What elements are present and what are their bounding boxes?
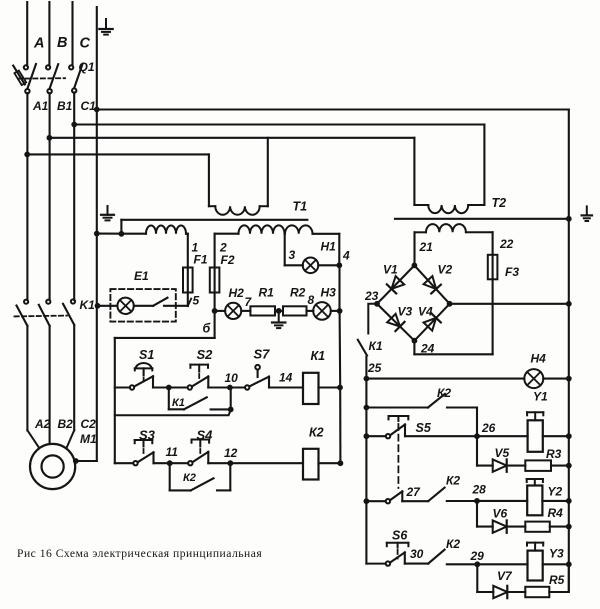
svg-text:Y2: Y2	[548, 485, 563, 499]
svg-text:K1: K1	[80, 298, 96, 312]
svg-text:R5: R5	[549, 573, 565, 587]
svg-text:23: 23	[364, 289, 379, 303]
svg-text:V3: V3	[398, 305, 413, 319]
svg-text:28: 28	[472, 483, 487, 497]
svg-text:S7: S7	[254, 347, 271, 362]
svg-text:К1: К1	[172, 397, 185, 409]
svg-text:Н3: Н3	[321, 286, 337, 300]
svg-text:Т2: Т2	[492, 196, 507, 210]
svg-text:21: 21	[419, 240, 434, 254]
svg-text:8: 8	[308, 293, 315, 307]
svg-text:S1: S1	[139, 348, 154, 362]
svg-text:V2: V2	[438, 263, 453, 277]
svg-text:V7: V7	[497, 569, 513, 583]
svg-text:14: 14	[279, 371, 293, 385]
svg-text:S5: S5	[416, 421, 432, 435]
svg-text:S2: S2	[197, 347, 214, 362]
svg-text:S4: S4	[197, 428, 214, 443]
svg-text:R1: R1	[259, 286, 275, 300]
svg-text:В: В	[57, 35, 67, 51]
svg-text:R2: R2	[290, 286, 306, 300]
svg-text:А1: А1	[32, 99, 49, 113]
svg-text:V4: V4	[418, 305, 433, 319]
svg-text:Н2: Н2	[229, 286, 245, 300]
svg-text:V5: V5	[495, 446, 510, 460]
svg-text:Y3: Y3	[549, 547, 564, 561]
svg-text:25: 25	[367, 361, 382, 375]
svg-text:F3: F3	[505, 265, 519, 279]
svg-text:V1: V1	[383, 263, 398, 277]
svg-text:22: 22	[499, 237, 514, 251]
svg-text:К2: К2	[183, 472, 196, 484]
svg-text:24: 24	[420, 342, 435, 356]
svg-text:R3: R3	[546, 447, 562, 461]
svg-text:Н1: Н1	[321, 240, 337, 254]
svg-text:К2: К2	[437, 386, 451, 400]
svg-text:12: 12	[224, 446, 238, 460]
svg-text:30: 30	[410, 547, 424, 561]
svg-text:Рис 16 Схема электрическая пр: Рис 16 Схема электрическая принципиальна…	[17, 547, 262, 560]
svg-text:29: 29	[470, 549, 485, 563]
svg-text:К2: К2	[446, 474, 460, 488]
svg-text:К2: К2	[446, 537, 460, 551]
svg-text:4: 4	[342, 249, 350, 263]
svg-text:V6: V6	[493, 507, 508, 521]
svg-text:Т1: Т1	[293, 200, 308, 214]
svg-text:К1: К1	[369, 339, 383, 353]
svg-text:А: А	[33, 36, 44, 52]
svg-text:К2: К2	[309, 426, 324, 440]
svg-text:С1: С1	[81, 99, 97, 113]
svg-text:R4: R4	[548, 506, 564, 520]
svg-text:Y1: Y1	[533, 390, 548, 404]
svg-text:В1: В1	[57, 99, 73, 113]
svg-text:S3: S3	[139, 428, 156, 443]
svg-text:А2: А2	[34, 417, 51, 431]
svg-text:М1: М1	[80, 432, 97, 446]
svg-text:27: 27	[406, 485, 422, 499]
svg-text:Е1: Е1	[134, 269, 149, 283]
svg-text:С: С	[80, 36, 91, 52]
svg-text:F2: F2	[221, 253, 235, 267]
svg-text:10: 10	[225, 371, 239, 385]
svg-text:26: 26	[481, 421, 496, 435]
svg-text:К1: К1	[311, 349, 326, 363]
svg-text:5: 5	[193, 294, 200, 308]
svg-text:S6: S6	[392, 529, 408, 543]
svg-text:F1: F1	[194, 253, 208, 267]
svg-text:В2: В2	[58, 417, 74, 431]
svg-text:11: 11	[166, 445, 179, 459]
svg-text:С2: С2	[81, 417, 97, 431]
svg-text:Н4: Н4	[531, 352, 547, 366]
svg-text:б: б	[203, 322, 212, 336]
svg-text:Q1: Q1	[79, 60, 95, 74]
svg-text:3: 3	[289, 248, 296, 262]
